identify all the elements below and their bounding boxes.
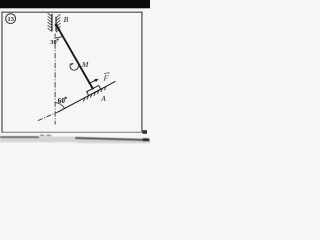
frame bottom-right corner blob: [143, 130, 147, 134]
bottom dark scan line right: [75, 137, 150, 141]
incline dash-dot extension lower-left: [38, 112, 58, 121]
pin at B: [55, 24, 58, 27]
svg-text:60: 60: [58, 97, 66, 105]
F arrowhead: [94, 79, 98, 82]
frame top line: [2, 11, 143, 13]
wall left line (slot left guide): [51, 14, 53, 31]
bottom dark scan line left: [0, 136, 39, 138]
svg-text:13: 13: [8, 16, 14, 23]
wall left hatching: [48, 13, 52, 31]
svg-text:A: A: [100, 94, 106, 103]
bottom right dark blob: [143, 138, 150, 141]
svg-text:F: F: [103, 73, 109, 82]
rod BA: [56, 25, 93, 90]
60 degree arc: [55, 103, 65, 109]
wall right line (slot right guide): [55, 17, 57, 32]
frame bottom line: [2, 131, 145, 133]
hatching under incline near A: [83, 86, 106, 101]
incline surface solid line: [58, 81, 116, 112]
page background: [0, 0, 150, 150]
wall right hatching: [56, 14, 60, 32]
svg-text:B: B: [64, 15, 69, 24]
frame right line: [141, 12, 143, 133]
bottom gray scan band left: [0, 137, 78, 143]
30 degree arc: [56, 36, 63, 38]
vertical dash-dot reference line through B: [54, 34, 56, 125]
svg-text:M: M: [81, 60, 89, 69]
svg-text:30: 30: [50, 39, 56, 46]
frame left line: [1, 12, 3, 133]
moment arrowhead: [71, 63, 74, 65]
figure number circle 13: [6, 14, 16, 24]
bottom scan dashes: [40, 135, 44, 136]
force F arrow: [89, 80, 97, 84]
slider block at A: [87, 85, 101, 95]
moment M arc arrow on rod: [70, 63, 78, 70]
top scanner black bar: [0, 0, 150, 8]
bottom gray scan band right: [78, 139, 150, 144]
figure frame border: [2, 12, 145, 133]
